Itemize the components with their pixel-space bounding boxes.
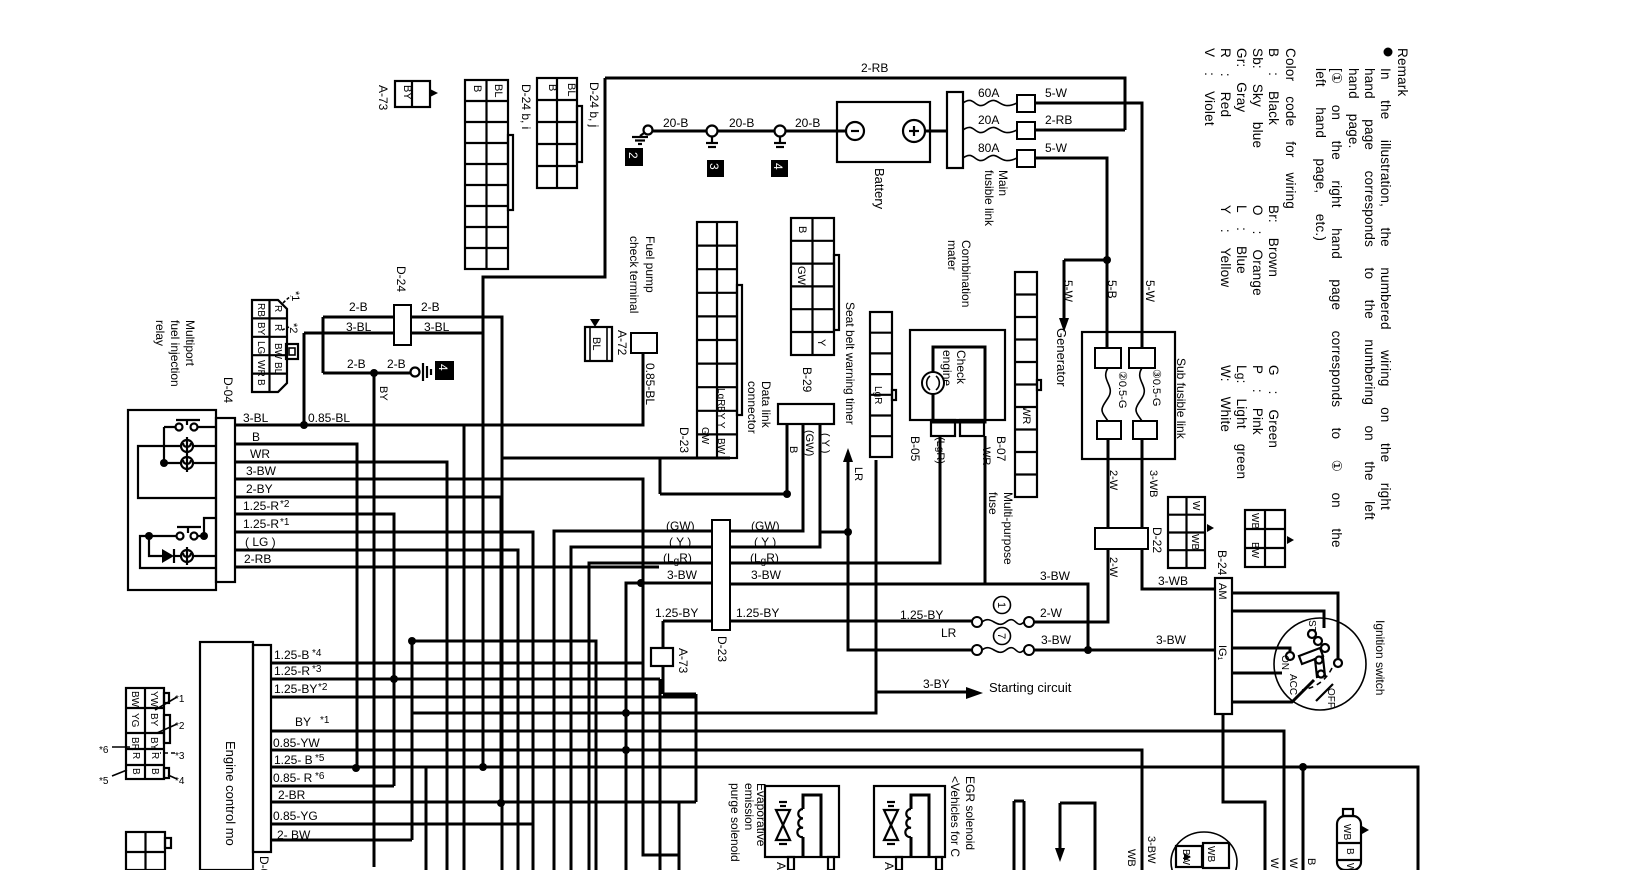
svg-text:O : Orange: O : Orange: [1250, 205, 1265, 296]
svg-text:②0.5-G: ②0.5-G: [1116, 371, 1128, 408]
svg-text:1.25-BY: 1.25-BY: [900, 608, 943, 622]
svg-text:Lg: Light green: Lg: Light green: [1234, 365, 1249, 479]
svg-text:purge solenoid: purge solenoid: [728, 783, 742, 862]
svg-text:(LgR): (LgR): [934, 437, 946, 464]
svg-text:Combination: Combination: [959, 240, 973, 307]
svg-text:*6: *6: [315, 771, 325, 782]
svg-text:B: B: [787, 446, 799, 453]
svg-text:0.85-BL: 0.85-BL: [643, 363, 657, 405]
svg-text:20A: 20A: [978, 113, 999, 127]
svg-text:Battery: Battery: [872, 168, 887, 210]
svg-text:Starting circuit: Starting circuit: [989, 680, 1072, 695]
svg-text:B-24: B-24: [1215, 550, 1229, 576]
svg-text:Y : Yellow: Y : Yellow: [1218, 205, 1233, 287]
svg-text:0.85-BL: 0.85-BL: [308, 411, 350, 425]
svg-text:B-07: B-07: [994, 436, 1008, 462]
svg-text:3-BW: 3-BW: [246, 464, 277, 478]
svg-text:LR: LR: [941, 626, 957, 640]
svg-text:2-B: 2-B: [349, 300, 368, 314]
svg-text:5-W: 5-W: [1045, 86, 1068, 100]
svg-text:3-BW: 3-BW: [751, 568, 782, 582]
svg-text:B: B: [255, 379, 266, 386]
svg-text:2-RB: 2-RB: [244, 552, 271, 566]
svg-text:2-B: 2-B: [421, 300, 440, 314]
svg-text:20-B: 20-B: [729, 116, 754, 130]
svg-text:GW: GW: [699, 427, 710, 445]
svg-text:check terminal: check terminal: [627, 236, 641, 313]
svg-text:BY: BY: [377, 386, 389, 401]
svg-text:(GW): (GW): [666, 519, 695, 533]
svg-text:Generator: Generator: [1054, 328, 1069, 387]
svg-text:3-BL: 3-BL: [346, 320, 372, 334]
svg-text:WR: WR: [1020, 406, 1032, 424]
svg-text:WB: WB: [1341, 824, 1352, 840]
svg-text:D-24 b, j: D-24 b, j: [587, 82, 601, 127]
svg-text:3-BL: 3-BL: [243, 411, 269, 425]
svg-text:1.25-R: 1.25-R: [243, 517, 279, 531]
svg-text:1.25- B: 1.25- B: [274, 753, 313, 767]
svg-text:V : Violet: V : Violet: [1202, 48, 1217, 126]
svg-text:YW: YW: [148, 691, 159, 708]
svg-text:relay: relay: [153, 320, 167, 346]
svg-text:BY: BY: [148, 737, 159, 751]
svg-text:BW: BW: [715, 438, 726, 455]
svg-text:3-BW: 3-BW: [1156, 633, 1187, 647]
svg-text:*4: *4: [175, 776, 185, 787]
svg-text:B: B: [796, 226, 808, 233]
svg-text:IG₁: IG₁: [1216, 645, 1228, 661]
svg-text:B: B: [149, 768, 160, 775]
svg-text:connector: connector: [745, 381, 759, 434]
svg-text:2- BW: 2- BW: [277, 828, 311, 842]
svg-text:BL: BL: [272, 362, 283, 375]
svg-text:3-WB: 3-WB: [1147, 470, 1159, 498]
svg-text:BL: BL: [565, 83, 577, 96]
svg-text:BY: BY: [255, 322, 266, 336]
svg-text:R : Red: R : Red: [1218, 48, 1233, 117]
svg-text:1.25-B: 1.25-B: [274, 648, 309, 662]
svg-text:(GW): (GW): [803, 430, 815, 456]
svg-text:BY: BY: [295, 715, 311, 729]
svg-text:3-BW: 3-BW: [667, 568, 698, 582]
svg-text:*1: *1: [175, 694, 185, 705]
svg-text:1.25-R: 1.25-R: [243, 499, 279, 513]
svg-text:RB: RB: [255, 303, 266, 317]
svg-text:BW: BW: [129, 691, 140, 708]
svg-text:2: 2: [626, 152, 640, 159]
svg-text:Data link: Data link: [759, 381, 773, 429]
svg-text:Sb: Sky blue: Sb: Sky blue: [1250, 48, 1265, 148]
svg-text:A: A: [882, 862, 896, 870]
svg-text:W: W: [1268, 858, 1280, 869]
svg-text:G : Green: G : Green: [1266, 365, 1281, 448]
svg-text:*1: *1: [280, 517, 290, 528]
svg-text:③0.5-G: ③0.5-G: [1150, 369, 1162, 406]
svg-text:A: A: [774, 862, 788, 870]
svg-text:Br: Brown: Br: Brown: [1266, 205, 1281, 277]
svg-text:0.85-YG: 0.85-YG: [273, 809, 318, 823]
svg-text:3-WB: 3-WB: [1158, 574, 1188, 588]
svg-text:left hand page, etc.): left hand page, etc.): [1313, 68, 1328, 241]
svg-text:B-29: B-29: [800, 367, 814, 393]
svg-text:(GW): (GW): [751, 519, 780, 533]
svg-text:WB: WB: [1205, 846, 1216, 862]
svg-text:EGR solenoid: EGR solenoid: [963, 776, 977, 850]
svg-text:D-24: D-24: [394, 266, 408, 292]
svg-text:WB: WB: [1189, 534, 1200, 550]
svg-text:7: 7: [995, 633, 1007, 639]
svg-text:WB: WB: [1249, 513, 1260, 529]
svg-text:3-BW: 3-BW: [1041, 633, 1072, 647]
svg-text:Ignition switch: Ignition switch: [1373, 620, 1387, 695]
svg-text:3-BY: 3-BY: [923, 677, 950, 691]
svg-text:5-W: 5-W: [1061, 280, 1075, 303]
svg-text:BW: BW: [1249, 542, 1260, 559]
svg-text:Fuel pump: Fuel pump: [643, 236, 657, 293]
svg-text:D-0: D-0: [257, 856, 271, 870]
svg-text:2-W: 2-W: [1107, 470, 1119, 491]
svg-text:OFF: OFF: [1325, 688, 1336, 708]
svg-text:B: B: [252, 430, 260, 444]
svg-text:B-05: B-05: [908, 436, 922, 462]
svg-text:B: B: [471, 85, 483, 92]
svg-text:W: W: [1344, 863, 1355, 870]
svg-text:D-24 b, i: D-24 b, i: [519, 84, 533, 129]
svg-text:<Vehicles for C: <Vehicles for C: [948, 776, 962, 857]
svg-text:*5: *5: [315, 753, 325, 764]
svg-text:*2: *2: [280, 499, 290, 510]
svg-text:WR: WR: [250, 447, 270, 461]
svg-text:WB: WB: [1125, 849, 1137, 867]
svg-text:*2: *2: [287, 323, 299, 333]
svg-text:BW: BW: [1180, 849, 1191, 866]
svg-text:2-B: 2-B: [387, 357, 406, 371]
svg-text:BL: BL: [492, 84, 504, 97]
svg-text:LR: LR: [852, 467, 864, 481]
svg-text:Y: Y: [815, 339, 827, 347]
svg-text:0.85-YW: 0.85-YW: [273, 736, 320, 750]
svg-text:D-23: D-23: [677, 427, 691, 453]
svg-text:B: B: [1344, 848, 1355, 855]
svg-text:ACC: ACC: [1287, 674, 1298, 695]
svg-text:R: R: [149, 752, 160, 759]
svg-text:emission: emission: [742, 783, 756, 830]
svg-text:WR: WR: [255, 360, 266, 377]
svg-text:3-BW: 3-BW: [1145, 836, 1157, 864]
svg-text:*3: *3: [312, 664, 322, 675]
svg-text:5-W: 5-W: [1045, 141, 1068, 155]
svg-text:3-BL: 3-BL: [424, 320, 450, 334]
svg-text:2-BY: 2-BY: [246, 482, 273, 496]
svg-text:A-72: A-72: [615, 330, 629, 356]
svg-text:*1: *1: [289, 291, 301, 301]
svg-text:LG: LG: [255, 341, 266, 355]
svg-text:BR: BR: [129, 737, 140, 751]
svg-text:3-BW: 3-BW: [1040, 569, 1071, 583]
svg-text:ON: ON: [1279, 655, 1290, 670]
svg-text:20-B: 20-B: [663, 116, 688, 130]
svg-text:BL: BL: [590, 337, 602, 350]
svg-text:2-W: 2-W: [1107, 557, 1119, 578]
svg-text:60A: 60A: [978, 86, 999, 100]
svg-text:( Y ): ( Y ): [754, 535, 776, 549]
svg-text:*1: *1: [320, 715, 330, 726]
svg-text:B : Black: B : Black: [1266, 48, 1281, 125]
svg-text:1: 1: [995, 602, 1007, 608]
svg-text:3: 3: [707, 163, 721, 170]
svg-text:B: B: [546, 84, 558, 91]
svg-text:AM: AM: [1216, 583, 1228, 600]
svg-text:D-04: D-04: [221, 377, 235, 403]
svg-text:L : Blue: L : Blue: [1234, 205, 1249, 274]
svg-text:1.25-BY: 1.25-BY: [736, 606, 779, 620]
svg-text:ST: ST: [1306, 620, 1317, 633]
svg-text:Multiport: Multiport: [183, 320, 197, 367]
svg-text:mater: mater: [945, 240, 959, 271]
svg-text:1.25-BY: 1.25-BY: [655, 606, 698, 620]
svg-text:Engine control mo: Engine control mo: [223, 741, 238, 846]
svg-text:fuse: fuse: [986, 492, 1000, 515]
svg-text:Gr: Gray: Gr: Gray: [1234, 48, 1249, 112]
svg-text:1.25-R: 1.25-R: [274, 664, 310, 678]
svg-text:BY: BY: [148, 713, 159, 727]
svg-text:*3: *3: [175, 751, 185, 762]
svg-text:R: R: [272, 324, 283, 331]
svg-text:WR: WR: [980, 447, 992, 465]
svg-text:80A: 80A: [978, 141, 999, 155]
svg-text:( Y ): ( Y ): [669, 535, 691, 549]
svg-text:0.85- R: 0.85- R: [273, 771, 313, 785]
svg-text:engine: engine: [940, 350, 954, 386]
svg-text:hand page corresponds to t: hand page corresponds to the numbering o…: [1362, 68, 1377, 520]
svg-text:[① on the right hand page: [① on the right hand page corresponds to…: [1329, 68, 1344, 548]
svg-text:*2: *2: [318, 682, 328, 693]
svg-text:*2: *2: [175, 721, 185, 732]
svg-text:2-RB: 2-RB: [1045, 113, 1072, 127]
svg-text:fuel injection: fuel injection: [168, 320, 182, 387]
svg-text:In the illustration, the n: In the illustration, the numbered wiring…: [1378, 68, 1393, 510]
svg-text:2-B: 2-B: [347, 357, 366, 371]
svg-text:Remark: Remark: [1395, 48, 1410, 97]
svg-text:LgR: LgR: [715, 388, 726, 406]
svg-text:W: White: W: White: [1218, 365, 1233, 432]
svg-text:LgR: LgR: [872, 386, 883, 404]
svg-text:2-BR: 2-BR: [278, 788, 306, 802]
svg-text:A-73: A-73: [676, 648, 690, 674]
svg-text:Color code for wiring: Color code for wiring: [1283, 48, 1298, 209]
svg-text:hand page.: hand page.: [1346, 68, 1361, 149]
svg-text:2-W: 2-W: [1040, 606, 1063, 620]
svg-text:Main: Main: [996, 170, 1010, 196]
svg-text:BY Y: BY Y: [715, 406, 726, 429]
svg-text:Check: Check: [954, 350, 968, 385]
svg-text:5-B: 5-B: [1105, 280, 1119, 299]
svg-text:W: W: [1190, 501, 1201, 511]
svg-text:20-B: 20-B: [795, 116, 820, 130]
svg-text:4: 4: [436, 364, 450, 371]
svg-text:*4: *4: [312, 648, 322, 659]
svg-text:B: B: [130, 768, 141, 775]
svg-text:1.25-BY: 1.25-BY: [274, 682, 317, 696]
svg-text:YG: YG: [129, 713, 140, 728]
svg-text:*5: *5: [99, 776, 109, 787]
svg-text:BW: BW: [272, 343, 283, 360]
svg-text:B: B: [1305, 858, 1317, 865]
svg-text:D-23: D-23: [715, 636, 729, 662]
svg-text:*6: *6: [99, 745, 109, 756]
svg-text:W: W: [1287, 858, 1299, 869]
svg-text:P : Pink: P : Pink: [1250, 365, 1265, 435]
svg-text:R: R: [130, 752, 141, 759]
svg-text:( LG ): ( LG ): [245, 535, 276, 549]
svg-text:2-RB: 2-RB: [861, 61, 888, 75]
svg-text:4: 4: [771, 163, 785, 170]
svg-text:( Y ): ( Y ): [819, 433, 831, 453]
svg-text:Sub fusible link: Sub fusible link: [1174, 358, 1188, 440]
svg-text:BY: BY: [401, 85, 413, 100]
svg-text:Multi-purpose: Multi-purpose: [1001, 492, 1015, 565]
svg-text:GW: GW: [795, 266, 807, 286]
svg-text:D-22: D-22: [1150, 527, 1164, 553]
svg-text:fusible link: fusible link: [982, 170, 996, 227]
svg-text:R: R: [272, 305, 283, 312]
svg-text:5-W: 5-W: [1143, 280, 1157, 303]
svg-text:A-73: A-73: [376, 85, 390, 111]
svg-text:Seat belt warning timer: Seat belt warning timer: [843, 302, 857, 425]
